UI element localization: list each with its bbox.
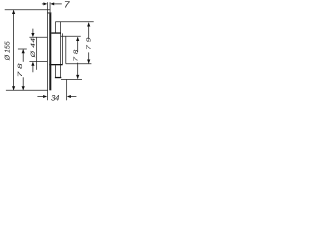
- svg-text:Ø 155: Ø 155: [4, 41, 12, 61]
- long inner vertical (stub sides): [60, 22, 62, 78]
- 78-right dim line (broken for text): [77, 37, 79, 52]
- plate front face line (also ext for 7 and 34 dims): [46, 2, 48, 100]
- Ø155 dim line: [13, 10, 15, 90]
- plate bottom edge / baseline extension: [6, 89, 48, 91]
- 78-left bottom arrow (down): [22, 86, 25, 90]
- 34 right extension line: [66, 79, 68, 100]
- 78-right bottom arrow (down): [76, 75, 79, 79]
- svg-text:34: 34: [51, 93, 60, 102]
- 79 bottom arrow (down): [87, 60, 90, 64]
- handle top edge / Ø44 top ext: [29, 36, 47, 38]
- Ø155 bottom arrow (down): [12, 86, 15, 90]
- 7 right arrow (left): [50, 2, 54, 5]
- svg-text:Ø 44: Ø 44: [30, 37, 37, 58]
- 34 right arrow (left): [67, 95, 71, 98]
- 7-dim right extension line: [49, 2, 51, 12]
- 7 left arrow (right): [43, 2, 47, 5]
- labels: [4, 0, 93, 102]
- 79 dim line (broken for text): [88, 23, 90, 39]
- plate top inner cap: [47, 12, 51, 13]
- thick line above lower stub: [49, 64, 62, 66]
- 7 dim tails: [42, 3, 45, 5]
- handle bottom edge / Ø44 bottom ext: [29, 60, 47, 62]
- handle front face: [36, 37, 38, 70]
- lower stub left side: [54, 65, 56, 77]
- 34 dim tails: [37, 96, 43, 98]
- step top edge / 78-right top ext: [61, 35, 81, 37]
- Ø155 top arrow (up): [12, 10, 15, 14]
- 78-right bottom ext: [61, 79, 82, 81]
- 78-right top arrow (up): [76, 37, 79, 41]
- 34 left arrow (right): [43, 95, 47, 98]
- dimension lines: [14, 4, 89, 97]
- plate top edge / Ø155 top extension line: [5, 9, 51, 11]
- 78-left top arrow (up): [22, 49, 25, 53]
- step right edge: [65, 36, 67, 64]
- upper stub thick bottom: [51, 32, 61, 34]
- body right edge: [61, 33, 63, 64]
- upper stub left side: [54, 22, 56, 33]
- 79 top arrow (up): [87, 22, 90, 26]
- thick object lines: [49, 33, 62, 78]
- plate back + wall dark band: [49, 12, 51, 90]
- lower stub thick bottom: [55, 77, 61, 79]
- Ø44 bottom arrow (up, outside): [31, 62, 34, 66]
- upper stub top edge / 79 top ext line: [55, 21, 93, 23]
- 78-left dim line (broken for text): [22, 49, 24, 61]
- arrowheads: [12, 2, 90, 98]
- step bottom edge / 79 bottom ext: [66, 63, 92, 65]
- Ø44 top arrow (down, outside): [31, 33, 34, 37]
- Ø44 dim tails: [32, 29, 34, 34]
- 78-left top extension line: [18, 48, 27, 50]
